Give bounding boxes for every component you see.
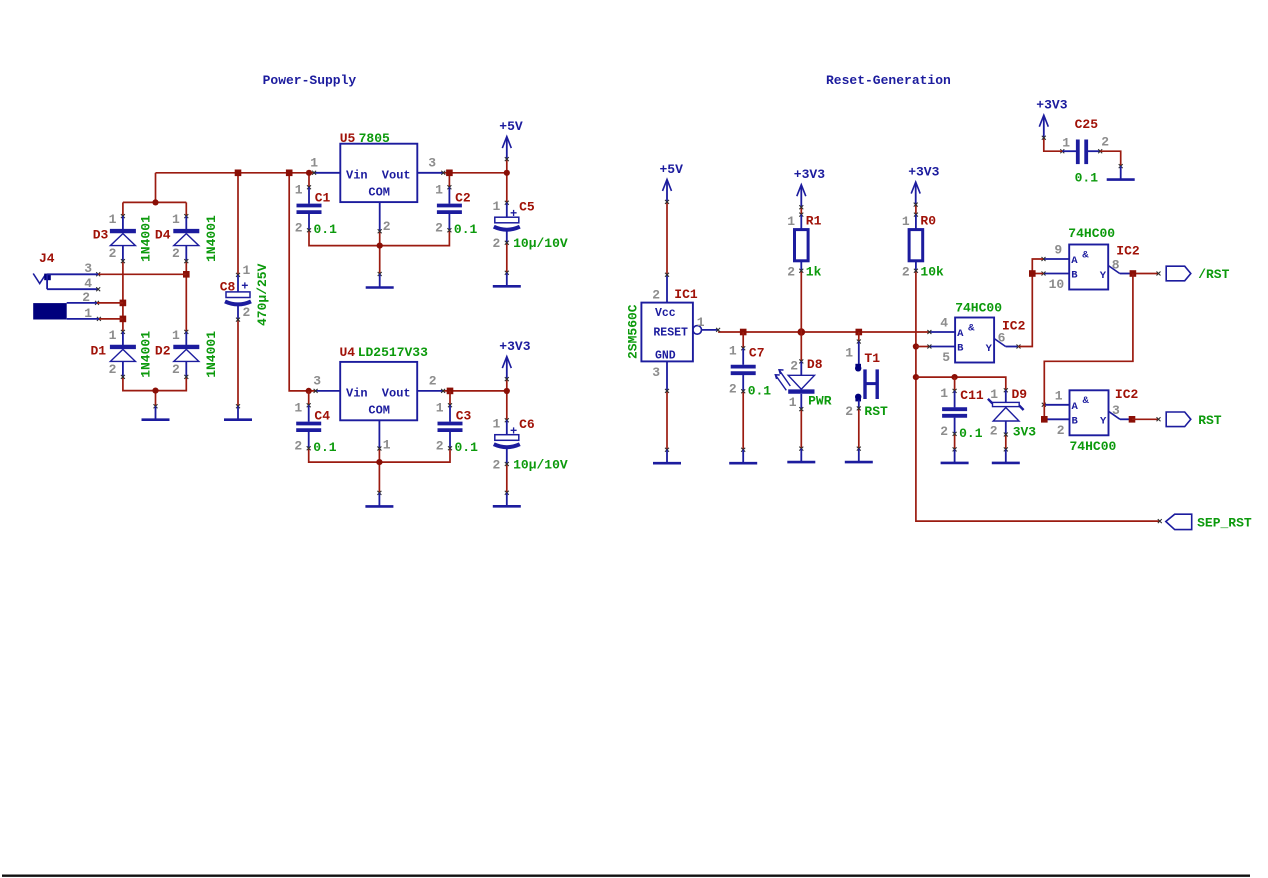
svg-text:1: 1: [492, 199, 500, 214]
svg-text:0.1: 0.1: [1075, 171, 1099, 186]
svg-text:+: +: [510, 207, 517, 221]
voltage regulator U5 7805: [312, 144, 445, 234]
C7 pin numbers: [729, 344, 737, 397]
polarized capacitor C6: [494, 417, 535, 466]
wire C5 to ground: [506, 243, 508, 273]
ground (IC1): [653, 448, 681, 464]
svg-text:+3V3: +3V3: [794, 167, 825, 182]
svg-text:1: 1: [172, 328, 180, 343]
svg-text:2SM560C: 2SM560C: [626, 304, 641, 359]
wire C6 to ground: [506, 464, 508, 493]
svg-text:1: 1: [436, 400, 444, 415]
svg-text:2: 2: [902, 265, 910, 280]
wire C3 stub: [449, 391, 451, 405]
svg-text:2: 2: [435, 220, 443, 235]
svg-text:1: 1: [697, 315, 705, 330]
svg-text:2: 2: [429, 374, 437, 389]
svg-text:+3V3: +3V3: [1036, 98, 1067, 113]
svg-text:1: 1: [172, 212, 180, 227]
wire RESET bus: [718, 331, 929, 333]
junction C7 on RESET bus: [740, 329, 747, 336]
polarized capacitor C8: [220, 273, 251, 322]
svg-text:1N4001: 1N4001: [204, 331, 219, 378]
ground (bridge): [142, 404, 170, 420]
C2 pin numbers: [435, 182, 443, 235]
svg-text:3: 3: [652, 365, 660, 380]
svg-text:2: 2: [729, 382, 737, 397]
svg-text:3: 3: [428, 156, 436, 171]
svg-text:Vin: Vin: [346, 387, 368, 401]
svg-text:470µ/25V: 470µ/25V: [255, 263, 270, 326]
svg-text:2: 2: [172, 246, 180, 261]
J4 pin numbers: [82, 261, 92, 321]
junction gate1 B on R0 wire: [913, 343, 919, 349]
wire /RST loop down to gate3 inputs: [1044, 274, 1133, 420]
wire C4 stub: [308, 391, 310, 405]
junction R1/D8 on RESET bus: [798, 328, 806, 336]
wire IC1 Vcc from +5V: [666, 202, 668, 275]
junction U4 feed: [286, 170, 293, 177]
svg-text:COM: COM: [368, 185, 390, 199]
wire R1 top: [800, 206, 802, 215]
svg-text:&: &: [1082, 249, 1089, 261]
diode D3: [93, 214, 136, 263]
svg-text:1: 1: [1055, 388, 1063, 403]
ground (D8): [787, 447, 815, 463]
svg-text:2: 2: [436, 438, 444, 453]
svg-text:2: 2: [940, 424, 948, 439]
svg-text:C5: C5: [519, 199, 535, 214]
D4 pin numbers: [172, 212, 180, 261]
junction T1 on RESET bus: [856, 329, 863, 336]
junction /RST loop: [1130, 270, 1137, 277]
svg-text:0.1: 0.1: [455, 440, 479, 455]
svg-text:/RST: /RST: [1198, 267, 1229, 282]
svg-text:Vout: Vout: [382, 387, 411, 401]
capacitor C25 (horizontal): [1060, 140, 1102, 165]
wire IC1 GND to ground: [666, 391, 668, 450]
junction +5V node: [504, 170, 510, 176]
polarized capacitor C5: [494, 199, 535, 244]
svg-text:1: 1: [295, 182, 303, 197]
C6 pin numbers: [492, 417, 500, 473]
svg-text:0.1: 0.1: [313, 440, 337, 455]
D3 pin numbers: [109, 212, 117, 261]
wire U4 ground bus with C4 C3 COM: [309, 449, 450, 493]
svg-text:A: A: [1072, 401, 1079, 413]
svg-text:B: B: [957, 343, 964, 355]
svg-text:SEP_RST: SEP_RST: [1197, 516, 1252, 531]
wire U4 Vout to +3V3 node: [443, 390, 507, 392]
D1 pin numbers: [109, 328, 117, 377]
svg-text:2: 2: [1101, 135, 1109, 150]
wire +3V3 node vertical: [506, 378, 508, 421]
svg-text:A: A: [1071, 255, 1078, 267]
svg-text:U5: U5: [340, 131, 356, 146]
svg-text:IC1: IC1: [674, 287, 698, 302]
svg-text:3: 3: [1112, 403, 1120, 418]
svg-text:C1: C1: [315, 191, 331, 206]
wire J4 pin1 to bridge: [97, 317, 123, 321]
junction C8 on bus: [235, 170, 242, 177]
junction C4 on U4 Vin wire: [306, 388, 312, 394]
pushbutton T1 RST: [855, 340, 880, 411]
svg-text:4: 4: [84, 276, 92, 291]
wire bus down to U4 Vin: [289, 173, 315, 391]
svg-text:1: 1: [109, 328, 117, 343]
svg-text:RESET: RESET: [653, 327, 688, 340]
svg-text:D4: D4: [155, 228, 171, 243]
svg-text:+5V: +5V: [660, 162, 684, 177]
supply +5V (IC1): [660, 162, 684, 204]
wire C11 stub: [954, 377, 956, 391]
svg-text:1: 1: [294, 400, 302, 415]
svg-text:RST: RST: [1198, 413, 1222, 428]
supply +5V (C5): [499, 119, 523, 161]
ground (C7): [729, 448, 757, 464]
supply +3V3 (C25): [1036, 98, 1067, 140]
svg-text:2: 2: [845, 404, 853, 419]
NAND gate IC2 (gate 3): [1042, 390, 1132, 435]
wire R0 top: [915, 203, 917, 215]
svg-text:D2: D2: [155, 344, 171, 359]
supply +3V3 (R1): [794, 167, 825, 209]
junction gate3 B: [1041, 416, 1048, 423]
svg-text:Vcc: Vcc: [655, 307, 676, 320]
svg-text:0.1: 0.1: [959, 426, 983, 441]
ground (U5): [366, 272, 394, 288]
wire gate1 output to gate2 inputs: [1017, 259, 1044, 349]
svg-text:1N4001: 1N4001: [204, 215, 219, 262]
svg-text:2: 2: [383, 219, 391, 234]
svg-text:1: 1: [109, 212, 117, 227]
svg-text:Vin: Vin: [346, 169, 368, 183]
wire J4 pin3 to bridge: [96, 272, 186, 276]
ground (C8): [224, 404, 252, 420]
wire C8 to ground: [237, 320, 239, 407]
svg-text:GND: GND: [655, 350, 676, 363]
ground (D9): [992, 447, 1020, 463]
svg-text:4: 4: [940, 316, 948, 331]
wire R0 down to SEP_RST corner: [916, 271, 1160, 521]
junction C2 on +5V wire: [446, 170, 453, 177]
svg-text:D3: D3: [93, 228, 109, 243]
resistor R1: [795, 213, 822, 273]
svg-text:0.1: 0.1: [314, 222, 338, 237]
svg-text:3: 3: [84, 261, 92, 276]
junction C3 on +3V3 wire: [447, 388, 454, 395]
U5 pin numbers: [310, 156, 436, 234]
svg-text:8: 8: [1112, 257, 1120, 272]
resistor R0: [909, 213, 936, 273]
svg-text:Y: Y: [986, 343, 993, 355]
svg-text:3V3: 3V3: [1013, 425, 1037, 440]
svg-text:2: 2: [787, 265, 795, 280]
svg-text:&: &: [968, 322, 975, 334]
svg-text:Power-Supply: Power-Supply: [263, 73, 357, 88]
C25 pin numbers: [1062, 135, 1109, 151]
svg-text:2: 2: [243, 305, 251, 320]
wire D9 to ground: [1005, 435, 1007, 450]
junction gate2 input tie: [1029, 270, 1036, 277]
pin numbers 4,5,6 (gate 1): [940, 316, 1005, 366]
svg-text:T1: T1: [864, 351, 880, 366]
wire D8 to ground: [800, 409, 802, 449]
junction U4 COM node: [376, 459, 382, 465]
svg-text:1: 1: [492, 417, 500, 432]
svg-text:B: B: [1071, 270, 1078, 282]
svg-text:9: 9: [1054, 243, 1062, 258]
svg-text:2: 2: [82, 290, 90, 305]
wire +5V node vertical: [506, 159, 508, 203]
connector J4 (DC power jack): [33, 251, 100, 320]
NAND gate IC2 (gate 2): [1042, 245, 1132, 290]
svg-text:1k: 1k: [806, 265, 822, 280]
ground (C5): [493, 271, 521, 287]
junction bridge top: [152, 199, 158, 205]
C4 pin numbers: [294, 400, 302, 453]
supply +3V3 (C6): [499, 339, 530, 381]
svg-text:&: &: [1083, 395, 1090, 407]
svg-text:1: 1: [990, 387, 998, 402]
wire bridge bottom to ground: [123, 377, 186, 407]
svg-text:PWR: PWR: [808, 394, 832, 409]
junction J4 pin2: [120, 300, 127, 307]
D9 pin numbers: [990, 387, 999, 439]
capacitor C3: [438, 403, 472, 450]
svg-text:1: 1: [1062, 136, 1070, 151]
svg-text:2: 2: [652, 288, 660, 303]
svg-text:5: 5: [942, 350, 950, 365]
svg-text:D1: D1: [91, 344, 107, 359]
svg-text:1: 1: [435, 182, 443, 197]
junction J4 pin1: [120, 316, 127, 323]
svg-text:2: 2: [990, 424, 998, 439]
C1 pin numbers: [295, 182, 303, 235]
ground (U4): [365, 491, 393, 507]
svg-text:C6: C6: [519, 417, 535, 432]
reset IC IC1 2SM560C: [641, 273, 720, 393]
svg-text:Y: Y: [1100, 270, 1107, 282]
capacitor C2: [437, 185, 471, 232]
junction lower bus on R0 wire: [913, 374, 919, 380]
wire T1 to ground: [858, 408, 860, 448]
wire C11 to ground: [954, 434, 956, 450]
C8 pin numbers: [243, 263, 251, 320]
svg-text:C25: C25: [1075, 117, 1099, 132]
pin numbers 9,10,8 (gate 2): [1049, 243, 1120, 293]
svg-text:1: 1: [845, 346, 853, 361]
R1 pin numbers: [787, 214, 795, 280]
LED D8 PWR: [775, 357, 822, 411]
svg-text:1: 1: [84, 306, 92, 321]
wire D3 cathode column down to J4/D1: [122, 261, 124, 331]
svg-text:3: 3: [313, 374, 321, 389]
svg-text:Vout: Vout: [382, 169, 411, 183]
svg-text:6: 6: [998, 330, 1006, 345]
wire rectified bus (bridge top to +5V node): [123, 173, 508, 216]
svg-text:1: 1: [729, 344, 737, 359]
svg-text:74HC00: 74HC00: [1068, 226, 1115, 241]
frame bottom line: [2, 875, 1250, 877]
svg-text:1: 1: [902, 214, 910, 229]
wire C7 stub: [742, 332, 744, 348]
junction bridge bottom: [152, 388, 158, 394]
svg-text:1: 1: [940, 386, 948, 401]
NAND gate IC2 (gate 1): [927, 318, 1017, 363]
wire D4 cathode column down to D2: [185, 261, 187, 331]
ground (C6): [493, 491, 521, 507]
wire gate1 pin B stub: [916, 346, 930, 348]
T1 pin numbers: [845, 346, 853, 419]
svg-text:2: 2: [790, 359, 798, 374]
svg-text:+: +: [510, 425, 517, 439]
svg-text:LD2517V33: LD2517V33: [358, 345, 428, 360]
svg-text:+3V3: +3V3: [499, 339, 530, 354]
svg-text:2: 2: [172, 362, 180, 377]
net flag /RST: [1166, 266, 1229, 282]
svg-text:+3V3: +3V3: [908, 165, 939, 180]
ground (C11): [941, 447, 969, 463]
svg-text:C7: C7: [749, 345, 765, 360]
wire C8 riser: [237, 173, 239, 275]
svg-text:J4: J4: [39, 251, 55, 266]
svg-text:10µ/10V: 10µ/10V: [513, 236, 568, 251]
svg-text:2: 2: [294, 438, 302, 453]
svg-text:R0: R0: [920, 213, 936, 228]
junction J4 pin3 to D4 column: [183, 271, 190, 278]
svg-text:Reset-Generation: Reset-Generation: [826, 73, 951, 88]
svg-text:0.1: 0.1: [454, 222, 478, 237]
IC1 pin numbers: [652, 288, 705, 381]
svg-text:74HC00: 74HC00: [955, 301, 1002, 316]
wire C7 to ground: [742, 391, 744, 449]
svg-text:C8: C8: [220, 280, 236, 295]
svg-text:2: 2: [295, 220, 303, 235]
svg-text:IC2: IC2: [1115, 387, 1139, 402]
wire gate2 output to /RST flag: [1133, 272, 1161, 276]
wire C1 stub: [308, 173, 310, 187]
R0 pin numbers: [902, 214, 910, 280]
svg-text:Y: Y: [1100, 416, 1107, 428]
svg-text:D9: D9: [1012, 387, 1028, 402]
junction C11 on lower bus: [952, 374, 958, 380]
junction U5 COM node: [377, 243, 383, 249]
C5 pin numbers: [492, 199, 500, 251]
svg-text:1: 1: [383, 438, 391, 453]
ground (C25): [1107, 164, 1135, 180]
wire J4 pin2 to bridge: [95, 301, 123, 305]
wire +3V3 to C25 pin1: [1044, 137, 1063, 151]
wire gate3 output to RST flag: [1129, 416, 1161, 423]
svg-text:10µ/10V: 10µ/10V: [513, 458, 568, 473]
svg-text:1: 1: [243, 263, 251, 278]
capacitor C4: [296, 403, 330, 450]
diode D4: [155, 214, 199, 263]
svg-text:+: +: [241, 279, 248, 293]
svg-text:0.1: 0.1: [748, 383, 772, 398]
supply +3V3 (R0): [908, 165, 939, 207]
svg-text:2: 2: [492, 458, 500, 473]
wire U5 ground bus with C1 C2 COM: [309, 230, 449, 274]
capacitor C11: [942, 388, 984, 436]
diode D2: [155, 330, 199, 379]
junction +3V3 node: [504, 388, 510, 394]
svg-text:C2: C2: [455, 191, 471, 206]
pin numbers 1,2,3 (gate 3): [1055, 388, 1120, 438]
svg-text:COM: COM: [368, 403, 390, 417]
svg-text:+5V: +5V: [499, 119, 523, 134]
zener diode D9 3V3: [988, 387, 1027, 437]
svg-text:C3: C3: [456, 409, 472, 424]
wire C2 stub: [448, 173, 450, 187]
svg-text:2: 2: [109, 246, 117, 261]
wire C25 pin2 to ground: [1100, 151, 1121, 166]
svg-text:1: 1: [310, 156, 318, 171]
capacitor C1: [297, 185, 331, 232]
svg-text:RST: RST: [864, 404, 888, 419]
wire T1 stub: [858, 332, 860, 342]
ground (T1): [845, 447, 873, 463]
D8 pin numbers: [789, 359, 799, 410]
net flag RST: [1166, 412, 1222, 428]
svg-text:74HC00: 74HC00: [1070, 439, 1117, 454]
svg-text:U4: U4: [340, 345, 356, 360]
svg-text:1N4001: 1N4001: [139, 331, 154, 378]
svg-text:R1: R1: [806, 213, 822, 228]
diode D1: [91, 330, 136, 379]
svg-text:2: 2: [492, 236, 500, 251]
voltage regulator U4 LD2517V33: [314, 362, 446, 451]
svg-text:1: 1: [789, 395, 797, 410]
svg-text:2: 2: [1057, 423, 1065, 438]
wire lower bus to D9: [916, 377, 1006, 390]
svg-text:A: A: [957, 328, 964, 340]
D2 pin numbers: [172, 328, 180, 377]
svg-text:B: B: [1072, 415, 1079, 427]
svg-text:C4: C4: [314, 409, 330, 424]
capacitor C7: [731, 345, 765, 393]
U4 pin numbers: [313, 374, 437, 453]
svg-text:1: 1: [787, 214, 795, 229]
svg-text:IC2: IC2: [1116, 244, 1140, 259]
svg-text:1N4001: 1N4001: [139, 215, 154, 262]
svg-text:10: 10: [1049, 277, 1065, 292]
svg-text:10k: 10k: [920, 265, 944, 280]
junction C1 on bus: [306, 170, 312, 176]
C11 pin numbers: [940, 386, 948, 439]
net flag SEP_RST: [1166, 514, 1252, 530]
svg-text:D8: D8: [807, 357, 823, 372]
svg-text:7805: 7805: [359, 131, 390, 146]
svg-text:IC2: IC2: [1002, 319, 1026, 334]
svg-text:C11: C11: [960, 388, 984, 403]
C3 pin numbers: [436, 400, 444, 453]
wire R1 to D8: [800, 271, 802, 361]
svg-text:2: 2: [109, 362, 117, 377]
